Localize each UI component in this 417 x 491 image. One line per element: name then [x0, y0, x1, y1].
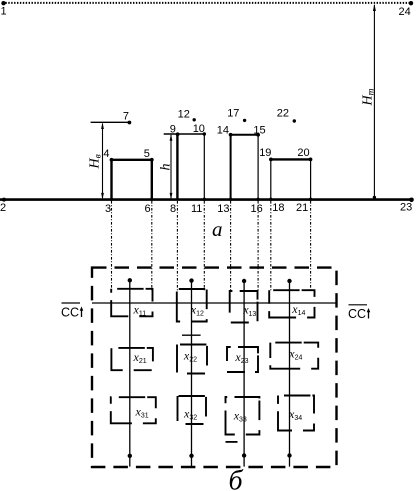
contact X22 box — [177, 345, 207, 374]
node 7 dot — [127, 121, 131, 125]
svg-text:8: 8 — [170, 203, 176, 215]
node 22 dot — [293, 119, 296, 122]
node 17 dot — [243, 119, 246, 122]
svg-text:18: 18 — [272, 202, 284, 214]
column wire 3 — [243, 281, 245, 467]
svg-text:4: 4 — [103, 148, 109, 160]
column wire 2 — [191, 281, 193, 467]
column2 tick — [182, 334, 201, 336]
svg-text:6: 6 — [145, 203, 151, 215]
contact X13 box — [230, 291, 258, 323]
svg-text:7: 7 — [123, 110, 129, 122]
contact X11 box — [111, 289, 152, 317]
svg-text:1: 1 — [1, 6, 7, 18]
svg-text:13: 13 — [217, 203, 229, 215]
svg-text:11: 11 — [191, 203, 202, 215]
svg-text:а: а — [212, 217, 223, 241]
projection dotted lines to block b — [112, 201, 311, 292]
node 14 dot — [229, 133, 233, 137]
CC bus wire — [92, 302, 337, 304]
svg-text:23: 23 — [400, 202, 412, 214]
contact X12 box — [177, 289, 207, 322]
svg-text:14: 14 — [217, 124, 229, 136]
node 13 dot — [229, 198, 232, 201]
contact X34 box — [278, 396, 314, 431]
node 3 dot — [110, 198, 113, 201]
node 21 dot — [309, 198, 312, 201]
svg-text:12: 12 — [178, 108, 190, 120]
svg-text:5: 5 — [144, 148, 150, 160]
pulse 3-4-5-6 — [112, 160, 152, 200]
node 11 dot — [203, 198, 206, 201]
column wire 4 — [289, 281, 291, 467]
svg-text:10: 10 — [193, 123, 205, 135]
dimension Ht line — [373, 5, 375, 197]
Ht base dot — [373, 196, 376, 199]
node 15 dot — [256, 133, 260, 137]
contact X32 box — [178, 396, 207, 424]
pulse 18-19-20-21 — [270, 159, 272, 199]
CC left overline — [62, 302, 81, 304]
node 23 — [409, 198, 414, 203]
node 20 dot — [309, 158, 313, 162]
svg-text:15: 15 — [253, 124, 265, 136]
contact X23 box — [227, 347, 258, 372]
contact X14 box — [269, 290, 314, 317]
node 1 — [1, 1, 5, 5]
svg-text:б: б — [229, 466, 244, 491]
node 5 dot — [150, 158, 154, 162]
level bar to point 7 — [91, 121, 129, 123]
svg-text:21: 21 — [296, 202, 308, 214]
contact X33 box — [226, 397, 260, 435]
svg-text:17: 17 — [227, 107, 239, 119]
svg-text:9: 9 — [170, 123, 176, 135]
contact X31 box — [111, 397, 156, 423]
dashed enclosure box — [92, 268, 337, 467]
X33 extra dashes — [226, 441, 238, 443]
svg-text:CC: CC — [61, 306, 79, 320]
pulse 8-9-10-11 — [176, 134, 178, 200]
dimension Hv line — [102, 124, 104, 199]
node 4 dot — [110, 158, 114, 162]
svg-text:20: 20 — [297, 147, 309, 159]
svg-text:16: 16 — [251, 203, 263, 215]
svg-text:2: 2 — [0, 202, 6, 214]
contact X21 box — [111, 348, 152, 370]
dimension h line — [170, 135, 172, 198]
svg-text:3: 3 — [105, 203, 111, 215]
node 24 — [409, 1, 413, 5]
svg-text:19: 19 — [259, 147, 271, 159]
column wire 1 — [129, 280, 131, 466]
svg-text:CC: CC — [348, 307, 366, 321]
svg-text:22: 22 — [277, 107, 289, 119]
pulse 13-14-15-16 — [230, 135, 232, 200]
node 12 dot — [193, 118, 196, 121]
node 10 dot — [203, 132, 206, 135]
node 18 dot — [269, 198, 272, 201]
svg-text:24: 24 — [399, 6, 411, 18]
svg-text:h: h — [159, 164, 174, 171]
node 19 dot — [269, 158, 273, 162]
node 2 — [2, 198, 6, 202]
node 16 dot — [256, 198, 259, 201]
node 9 dot — [176, 132, 180, 136]
top datum dotted line 1-24 — [3, 2, 412, 4]
node 6 dot — [150, 198, 153, 201]
ground axis line 2-23 — [0, 198, 414, 201]
CC right overline — [349, 304, 368, 306]
contact X24 box — [270, 343, 318, 369]
